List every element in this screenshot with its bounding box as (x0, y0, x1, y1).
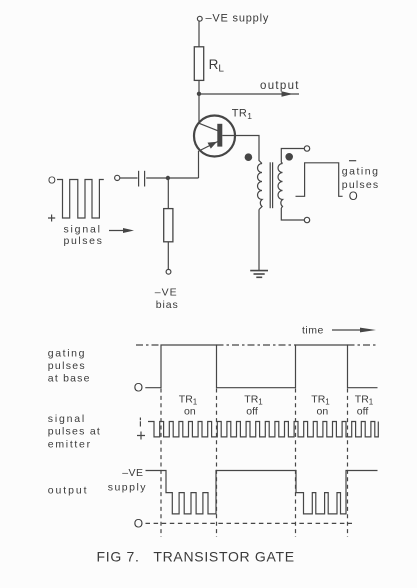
arrow signal in (109, 230, 126, 232)
svg-text:–VE: –VE (122, 467, 143, 479)
signal level tick (139, 418, 141, 421)
svg-text:signal: signal (64, 224, 102, 236)
svg-text:pulses: pulses (64, 235, 104, 247)
svg-text:FIG 7. TRANSISTOR GATE: FIG 7. TRANSISTOR GATE (97, 549, 295, 565)
terminal signal input (115, 175, 120, 180)
wire emitter lead (198, 151, 200, 178)
dash-dot top reference line (136, 344, 378, 346)
svg-text:on: on (184, 406, 196, 418)
svg-text:pulses at: pulses at (48, 426, 101, 438)
svg-text:O: O (134, 517, 143, 531)
svg-text:off: off (357, 406, 369, 418)
svg-text:O: O (48, 176, 56, 187)
dashed boundary B4 (347, 389, 349, 538)
transformer T1 primary dot (245, 153, 253, 161)
gating pulse inset waveform (296, 163, 343, 197)
wire emitter to input (146, 177, 198, 179)
transistor TR1 emitter arrow (208, 142, 218, 149)
svg-text:supply: supply (108, 482, 147, 494)
svg-text:off: off (246, 406, 258, 418)
wire bias resistor bottom (167, 242, 169, 270)
wire base lead (222, 136, 262, 164)
svg-text:at base: at base (48, 372, 91, 384)
resistor RL (194, 47, 203, 81)
wire bias resistor top (167, 180, 169, 209)
svg-text:gating: gating (342, 166, 380, 178)
transformer T1 secondary winding (278, 164, 283, 209)
svg-text:output: output (260, 80, 300, 92)
transformer T1 core (269, 162, 271, 208)
label + emitter level (137, 432, 145, 440)
ground (250, 271, 268, 278)
dashed boundary B1 (160, 389, 162, 538)
node collector junction (197, 92, 201, 96)
svg-text:–VE: –VE (155, 287, 178, 299)
transformer T1 secondary dot (285, 153, 293, 161)
svg-text:bias: bias (156, 299, 179, 311)
label + signal level (48, 215, 55, 222)
dashed O output line (146, 522, 353, 524)
transistor TR1 collector stroke (199, 123, 218, 131)
svg-text:O: O (134, 381, 143, 395)
svg-text:gating: gating (48, 348, 86, 360)
wire secondary bottom lead (281, 208, 304, 220)
terminal -VE bias (166, 269, 171, 274)
wire secondary top lead (281, 149, 304, 164)
signal pulses inset waveform (57, 180, 104, 219)
wire primary bottom to ground (258, 210, 260, 271)
wire RL to collector node (198, 80, 200, 93)
resistor bias (164, 209, 173, 242)
terminal gating top (304, 146, 309, 151)
svg-text:output: output (48, 485, 89, 497)
arrow time (332, 329, 363, 331)
dashed boundary B3 (295, 389, 297, 538)
signal waveform at emitter (148, 422, 378, 437)
wire output (199, 93, 299, 95)
transistor TR1 emitter stroke (200, 141, 218, 150)
svg-text:pulses: pulses (48, 360, 86, 372)
svg-text:pulses: pulses (342, 179, 380, 191)
gating waveform (145, 345, 377, 388)
terminal gating bottom (304, 217, 309, 222)
wire capacitor to input terminal (120, 177, 138, 179)
capacitor C plate left (138, 171, 140, 187)
transistor TR1 (194, 116, 235, 157)
svg-text:O: O (349, 191, 358, 203)
svg-text:emitter: emitter (48, 439, 92, 451)
gating pulse inset top tick (349, 160, 356, 162)
wire collector lead (198, 94, 200, 124)
transformer T1 primary winding (258, 164, 263, 210)
capacitor C plate right (144, 171, 146, 187)
terminal -VE supply (197, 16, 202, 21)
node input junction (166, 176, 170, 180)
svg-text:time: time (302, 325, 324, 337)
svg-text:signal: signal (48, 413, 86, 425)
svg-text:on: on (317, 406, 329, 418)
output waveform (146, 471, 378, 514)
svg-text:–VE supply: –VE supply (206, 13, 270, 25)
wire supply to RL (198, 21, 200, 47)
dashed boundary B2 (216, 389, 218, 538)
transistor TR1 base bar (217, 124, 222, 147)
arrowhead output (282, 91, 294, 97)
